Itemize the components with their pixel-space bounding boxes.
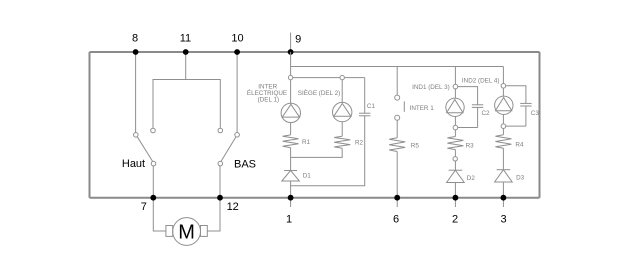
terminal circle IND2 bottom	[501, 124, 506, 129]
wire: INTER 1 top lead	[396, 67, 398, 96]
motor M left terminal	[166, 226, 173, 237]
node 1	[290, 198, 292, 207]
svg-text:C3: C3	[531, 110, 540, 117]
svg-text:Haut: Haut	[122, 158, 145, 170]
svg-text:INTER 1: INTER 1	[410, 105, 435, 112]
wire: R5 to node 6	[396, 152, 398, 198]
node 12	[217, 195, 223, 201]
wire: bottom ground bus	[90, 197, 540, 199]
svg-text:D1: D1	[303, 173, 312, 180]
wire: node 8 to switch Haut left contact	[135, 52, 137, 133]
wire: IND1 top lead	[454, 67, 456, 99]
diode D1	[284, 170, 297, 172]
motor M right terminal	[201, 226, 208, 237]
svg-text:(DEL 1): (DEL 1)	[258, 96, 279, 103]
terminal circle IND1 top	[453, 84, 458, 89]
motor M body	[173, 218, 201, 246]
wire: node 7 down to motor	[153, 198, 166, 231]
svg-text:9: 9	[295, 34, 301, 46]
capacitor C1	[359, 112, 370, 114]
wire: D3 to node 3	[502, 182, 504, 198]
wire: D1 to node 1	[290, 181, 292, 198]
wire: node 11 box right leg to BAS left contact	[186, 80, 221, 129]
lamp DEL1	[281, 103, 300, 122]
svg-text:R3: R3	[466, 143, 475, 150]
node 11	[183, 49, 189, 55]
switch S2 BAS right contact	[235, 133, 240, 138]
wire: DEL1 to R1	[290, 123, 292, 135]
svg-text:7: 7	[141, 201, 147, 213]
switch INTER 1 top contact	[395, 95, 400, 100]
svg-text:R1: R1	[302, 139, 311, 146]
node 8	[133, 49, 139, 55]
node 10	[234, 49, 240, 55]
svg-text:R4: R4	[515, 142, 524, 149]
switch S2 BAS blade	[221, 137, 236, 162]
wire: D1/C1 bottom connector	[291, 116, 365, 186]
label INTER 1	[403, 101, 405, 111]
resistor R3	[447, 137, 463, 150]
node 3	[502, 198, 504, 207]
resistor R2	[334, 136, 350, 148]
wire: DEL2 top lead	[341, 80, 343, 103]
lamp IND1	[446, 98, 464, 116]
switch S1 Haut left contact	[134, 133, 139, 138]
terminal circle below R3	[453, 157, 457, 161]
capacitor C2 branch	[458, 87, 478, 105]
node 9	[288, 49, 294, 55]
svg-text:IND1 (DEL 3): IND1 (DEL 3)	[412, 84, 450, 91]
wire: node 11 branch box	[153, 52, 186, 128]
wire: R1/R2 bottom connector	[291, 148, 343, 157]
wire: node 9 down through DEL1	[290, 52, 292, 103]
svg-text:D3: D3	[516, 175, 525, 182]
switch S1 Haut right contact	[151, 128, 156, 133]
svg-text:C2: C2	[482, 110, 491, 117]
terminal circle IND1 bottom	[453, 125, 458, 130]
switch INTER 1 bottom contact	[395, 115, 400, 120]
svg-text:6: 6	[393, 213, 399, 225]
terminal circle IND2 top	[501, 84, 506, 89]
node 7	[150, 195, 156, 201]
svg-text:IND2 (DEL 4): IND2 (DEL 4)	[462, 77, 500, 84]
wire: switch Haut pole to node 7	[152, 166, 154, 198]
wire: lamp top line DEL1-DEL2-C1	[291, 77, 365, 79]
wire: C3 bottom connector	[503, 125, 526, 127]
wire: C2 bottom connector	[455, 127, 477, 129]
svg-text:3: 3	[500, 213, 506, 225]
svg-text:M: M	[178, 222, 195, 244]
diode D3	[497, 169, 511, 171]
switch S2 BAS pole contact	[218, 161, 223, 166]
resistor R1	[283, 135, 299, 148]
resistor R4	[495, 135, 511, 149]
lamp DEL2	[333, 102, 352, 121]
wire: INTER 1 to R5	[396, 120, 398, 138]
wire: DEL2 to R2	[341, 122, 343, 136]
wire: D2 to node 2	[454, 183, 456, 198]
svg-text:C1: C1	[367, 103, 376, 110]
svg-text:12: 12	[227, 201, 239, 213]
svg-text:1: 1	[286, 213, 292, 225]
svg-text:BAS: BAS	[234, 158, 256, 170]
node 2	[454, 198, 456, 207]
diode D2	[449, 169, 463, 171]
terminal circle DEL1 top	[288, 75, 292, 79]
wire: IND2 top lead	[502, 67, 504, 97]
wire: right rail	[539, 52, 541, 198]
wire: node 10 to switch BAS right contact	[236, 52, 238, 133]
svg-text:8: 8	[132, 32, 138, 44]
wire: feed line to indicator branches	[291, 66, 504, 68]
wire: R1 to D1	[290, 148, 292, 171]
lamp IND2	[495, 96, 513, 114]
wire: switch BAS pole to node 12	[219, 166, 221, 198]
wire: stub above node 9	[290, 33, 292, 53]
resistor R5	[389, 138, 405, 152]
svg-text:11: 11	[180, 32, 191, 44]
capacitor C3 branch	[506, 86, 526, 104]
svg-text:2: 2	[452, 213, 458, 225]
switch S1 Haut blade	[137, 137, 152, 162]
svg-text:SIÈGE (DEL 2): SIÈGE (DEL 2)	[298, 88, 340, 97]
svg-text:R5: R5	[411, 143, 420, 150]
wire: node 12 down to motor	[207, 198, 220, 231]
wire: left rail	[89, 52, 91, 198]
switch S2 BAS left contact	[218, 128, 223, 133]
wire: R3 to D2	[454, 150, 456, 171]
svg-text:R2: R2	[355, 140, 364, 147]
switch S1 Haut pole contact	[151, 161, 156, 166]
terminal circle DEL2 top	[340, 75, 344, 79]
svg-text:D2: D2	[467, 175, 476, 182]
svg-text:10: 10	[231, 32, 243, 44]
wire: IND1 bottom lead	[454, 117, 456, 137]
wire: top supply bus	[90, 51, 540, 53]
node 6	[396, 198, 398, 207]
wire: IND2 bottom lead	[502, 115, 504, 135]
wire: R4 to D3	[502, 148, 504, 169]
